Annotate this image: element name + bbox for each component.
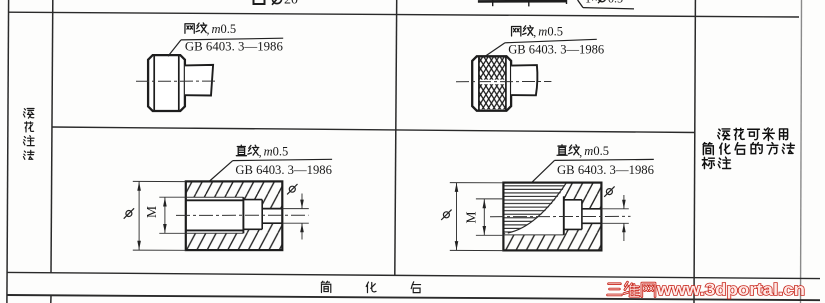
figure 4: outer diameter dimension (left) xyxy=(450,182,504,184)
figure 3: section hatch fill (bottom-left) xyxy=(186,181,282,250)
right column caption line 2: jian hua hou de fang fa xyxy=(703,143,713,155)
figure 1: chamfer edge lines xyxy=(153,55,155,111)
figure 4: leader line xyxy=(532,160,555,182)
figure 3: outer diameter dimension (left) xyxy=(133,180,186,182)
figure 2: knurled knob body outline (top-right, net knurl drawn) xyxy=(472,56,511,110)
svg-text:,: , xyxy=(579,145,582,159)
figure 4: white band under curve left part xyxy=(504,234,564,235)
figure 4: thread dimension M xyxy=(476,198,504,200)
right column caption line 1: gun hua ke cai yong xyxy=(718,129,730,140)
figure 2: leader line xyxy=(484,43,506,58)
figure 4: white region under knurl curve xyxy=(508,189,564,235)
simplified-after caption: jian hua hou xyxy=(321,281,331,292)
figure 1: label wang wen, m0.5 xyxy=(185,24,194,34)
figure 4: label zhi wen, m0.5 xyxy=(557,145,567,156)
figure 4: step2 counterbore outline xyxy=(564,199,582,201)
svg-text:m0.5: m0.5 xyxy=(212,22,237,36)
figure 4: outer outline xyxy=(503,183,601,251)
table frame: top border of simplified-caption band xyxy=(8,272,821,278)
figure 4: straight knurl region (white + horizontal lines) xyxy=(503,183,566,233)
cropped label: diameter 20 of previous row xyxy=(272,0,281,4)
svg-text:M: M xyxy=(144,206,159,218)
cropped leader callout 1x0.5 of previous row xyxy=(578,0,583,8)
svg-text:GB 6403. 3—1986: GB 6403. 3—1986 xyxy=(557,162,654,177)
svg-text:,: , xyxy=(259,145,262,159)
figure 3: pilot hole lines xyxy=(262,208,282,210)
svg-text:20: 20 xyxy=(284,0,298,7)
svg-text:M: M xyxy=(464,211,479,223)
table frame: divider between upper (net knurl) and lower (straight knurl) rows xyxy=(52,127,696,133)
table frame: bottom border of simplified-caption band xyxy=(7,295,820,300)
row caption (vertical): gun hua zhu fa xyxy=(23,108,34,118)
figure 2: shaft xyxy=(511,65,537,95)
table frame: center vertical divider xyxy=(395,0,397,275)
figure 4: step2 and pilot hole cavity (white) xyxy=(564,200,602,230)
svg-text:www.3dportal.cn: www.3dportal.cn xyxy=(656,280,805,299)
figure 3: step2 counterbore outline xyxy=(243,199,262,201)
table frame: right outer border xyxy=(801,0,802,303)
svg-text:GB 6403. 3—1986: GB 6403. 3—1986 xyxy=(235,162,332,177)
svg-text:m0.5: m0.5 xyxy=(538,25,563,39)
table frame: outer left border xyxy=(7,0,9,303)
figure 3: leader line xyxy=(209,161,233,182)
figure 3: thread dimension M xyxy=(159,196,186,198)
figure 1: knurled knob body outline (top-left, net knurl plain view) xyxy=(148,55,185,111)
svg-text:GB 6403. 3—1986: GB 6403. 3—1986 xyxy=(185,39,283,54)
svg-text:,: , xyxy=(533,25,536,39)
figure 3: label zhi wen, m0.5 xyxy=(236,145,246,156)
figure 2: chamfer edge lines xyxy=(478,56,480,110)
figure 1: shaft xyxy=(185,65,213,96)
figure 4: pilot hole lines xyxy=(582,208,602,210)
watermark: san wei wang (red outline) xyxy=(608,284,622,295)
figure 4: section hatch fill (bottom-right) xyxy=(503,183,601,251)
figure 1: leader line xyxy=(168,40,181,56)
figure 2: diamond knurl pattern fill xyxy=(479,57,506,79)
svg-text:0.5: 0.5 xyxy=(608,0,623,5)
figure 4: centerline xyxy=(490,215,631,217)
figure 4: pilot hole diameter dimension (right) xyxy=(601,208,628,210)
svg-text:1×: 1× xyxy=(585,0,598,5)
cropped drawing: dimension bar of previous row (top right) xyxy=(478,0,567,3)
figure 3: bore end step line xyxy=(242,197,244,233)
svg-text:m0.5: m0.5 xyxy=(264,145,289,159)
table frame: top border of knurling row xyxy=(9,12,799,17)
svg-text:GB 6403. 3—1986: GB 6403. 3—1986 xyxy=(508,41,604,56)
svg-text:,: , xyxy=(207,23,210,37)
figure 3: outer outline xyxy=(186,181,282,250)
cropped label: square symbol of previous row xyxy=(254,0,265,4)
figure 3: thread major diameter thin lines xyxy=(186,196,244,198)
figure 1: centerline xyxy=(136,80,217,82)
table frame: left inner column divider xyxy=(51,0,53,273)
figure 3: thread minor diameter thick lines xyxy=(186,199,244,201)
figure 4: band top thin line xyxy=(503,234,563,236)
figure 2: centerline xyxy=(456,81,551,83)
figure 4: knurl boundary curve xyxy=(508,183,567,233)
figure 4: bore step line xyxy=(563,196,565,235)
figure 3: bore cavity (white) xyxy=(186,197,282,233)
right column caption line 3: biao zhu xyxy=(702,157,714,168)
figure 2: label wang wen, m0.5 xyxy=(512,26,521,36)
figure 3: centerline xyxy=(176,214,309,216)
table frame: right column divider xyxy=(694,0,695,303)
figure 3: pilot hole diameter dimension (right) xyxy=(282,208,309,210)
svg-text:m0.5: m0.5 xyxy=(584,144,609,158)
